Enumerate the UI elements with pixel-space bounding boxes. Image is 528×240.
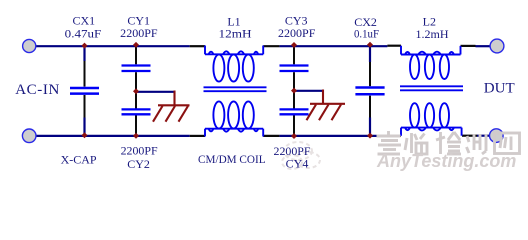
L2 bottom winding	[401, 103, 462, 136]
capacitor CY2	[122, 92, 151, 136]
watermark chinese glyph 2	[405, 133, 427, 154]
capacitor CY1	[122, 46, 151, 92]
svg-text:CY4: CY4	[286, 157, 309, 171]
wire bottom L1 to L2	[279, 135, 387, 137]
wire CX2 upper vertical	[369, 46, 371, 62]
terminal AC-IN bottom	[22, 129, 36, 143]
svg-text:1.2mH: 1.2mH	[416, 27, 449, 41]
wire CX2 lower vertical	[369, 118, 371, 136]
svg-text:CM/DM COIL: CM/DM COIL	[198, 152, 266, 166]
L1 top winding	[205, 46, 263, 82]
svg-text:0.1uF: 0.1uF	[354, 27, 379, 41]
L2 pin top-left	[387, 45, 401, 47]
watermark stamp blob over CY4 labels	[282, 142, 320, 169]
common-mode choke L2	[384, 46, 477, 136]
svg-text:AC-IN: AC-IN	[15, 82, 60, 98]
svg-text:0.47uF: 0.47uF	[65, 26, 102, 40]
svg-text:2200PF: 2200PF	[120, 26, 158, 40]
common-mode choke L1	[190, 46, 280, 137]
svg-text:X-CAP: X-CAP	[61, 152, 97, 166]
terminal DUT bottom	[490, 129, 504, 143]
svg-text:2200PF: 2200PF	[278, 26, 316, 40]
watermark chinese glyph 5	[495, 133, 520, 154]
L2 pin top-right	[461, 45, 476, 47]
junction node CX1 bottom	[82, 132, 88, 138]
terminal AC-IN top	[23, 39, 36, 52]
wire top L2 to DUT	[476, 45, 491, 47]
L1 pin top-right	[263, 45, 279, 47]
junction node CX2 bottom	[367, 133, 373, 139]
wire CX1 lower vertical	[83, 118, 85, 136]
junction node CX2 top	[367, 42, 373, 48]
svg-text:12mH: 12mH	[219, 27, 252, 41]
L1 pin top-left	[190, 45, 205, 47]
L1 core	[204, 87, 267, 91]
junction node CY1-CY2 mid	[133, 88, 139, 94]
ground G1	[153, 91, 190, 122]
junction node CY3 top	[291, 42, 297, 48]
ground G2	[307, 90, 346, 121]
L2 core	[400, 86, 463, 90]
watermark chinese glyph 4	[467, 134, 487, 154]
L2 top winding	[401, 46, 461, 79]
svg-text:DUT: DUT	[484, 81, 515, 97]
capacitor CX2	[355, 62, 384, 118]
L1 bottom winding	[205, 101, 263, 136]
junction node CY3-CY4 mid	[291, 88, 297, 94]
svg-text:AnyTesting.com: AnyTesting.com	[376, 151, 516, 171]
terminal DUT top	[490, 39, 504, 53]
junction node CY2 bottom	[133, 133, 139, 139]
junction node CX1 top	[82, 43, 88, 49]
watermark chinese glyph 1	[377, 131, 402, 154]
capacitor CY4	[280, 91, 309, 136]
wire bottom AC-IN to L1	[36, 135, 190, 137]
junction node CY1 top	[133, 42, 139, 48]
L2 pin bottom-left	[384, 135, 401, 137]
capacitor CX1	[70, 61, 99, 118]
svg-text:CY2: CY2	[127, 157, 150, 171]
wire top L1 to L2	[279, 45, 387, 47]
L2 pin bottom-right	[462, 135, 477, 137]
capacitor CY3	[280, 46, 309, 91]
L1 pin bottom-left	[190, 135, 205, 137]
wire CX1 upper vertical	[83, 46, 85, 61]
L1 pin bottom-right	[263, 135, 279, 137]
wire CY3-CY4 node to ground G2	[294, 90, 322, 92]
svg-text:2200PF: 2200PF	[121, 143, 158, 157]
wire top AC-IN to L1	[36, 45, 190, 47]
wire CY1-CY2 node to ground G1	[136, 91, 174, 93]
junction node CY4 bottom	[291, 133, 297, 139]
watermark chinese glyph 3	[436, 132, 461, 154]
wire bottom L2 to DUT	[477, 135, 490, 137]
